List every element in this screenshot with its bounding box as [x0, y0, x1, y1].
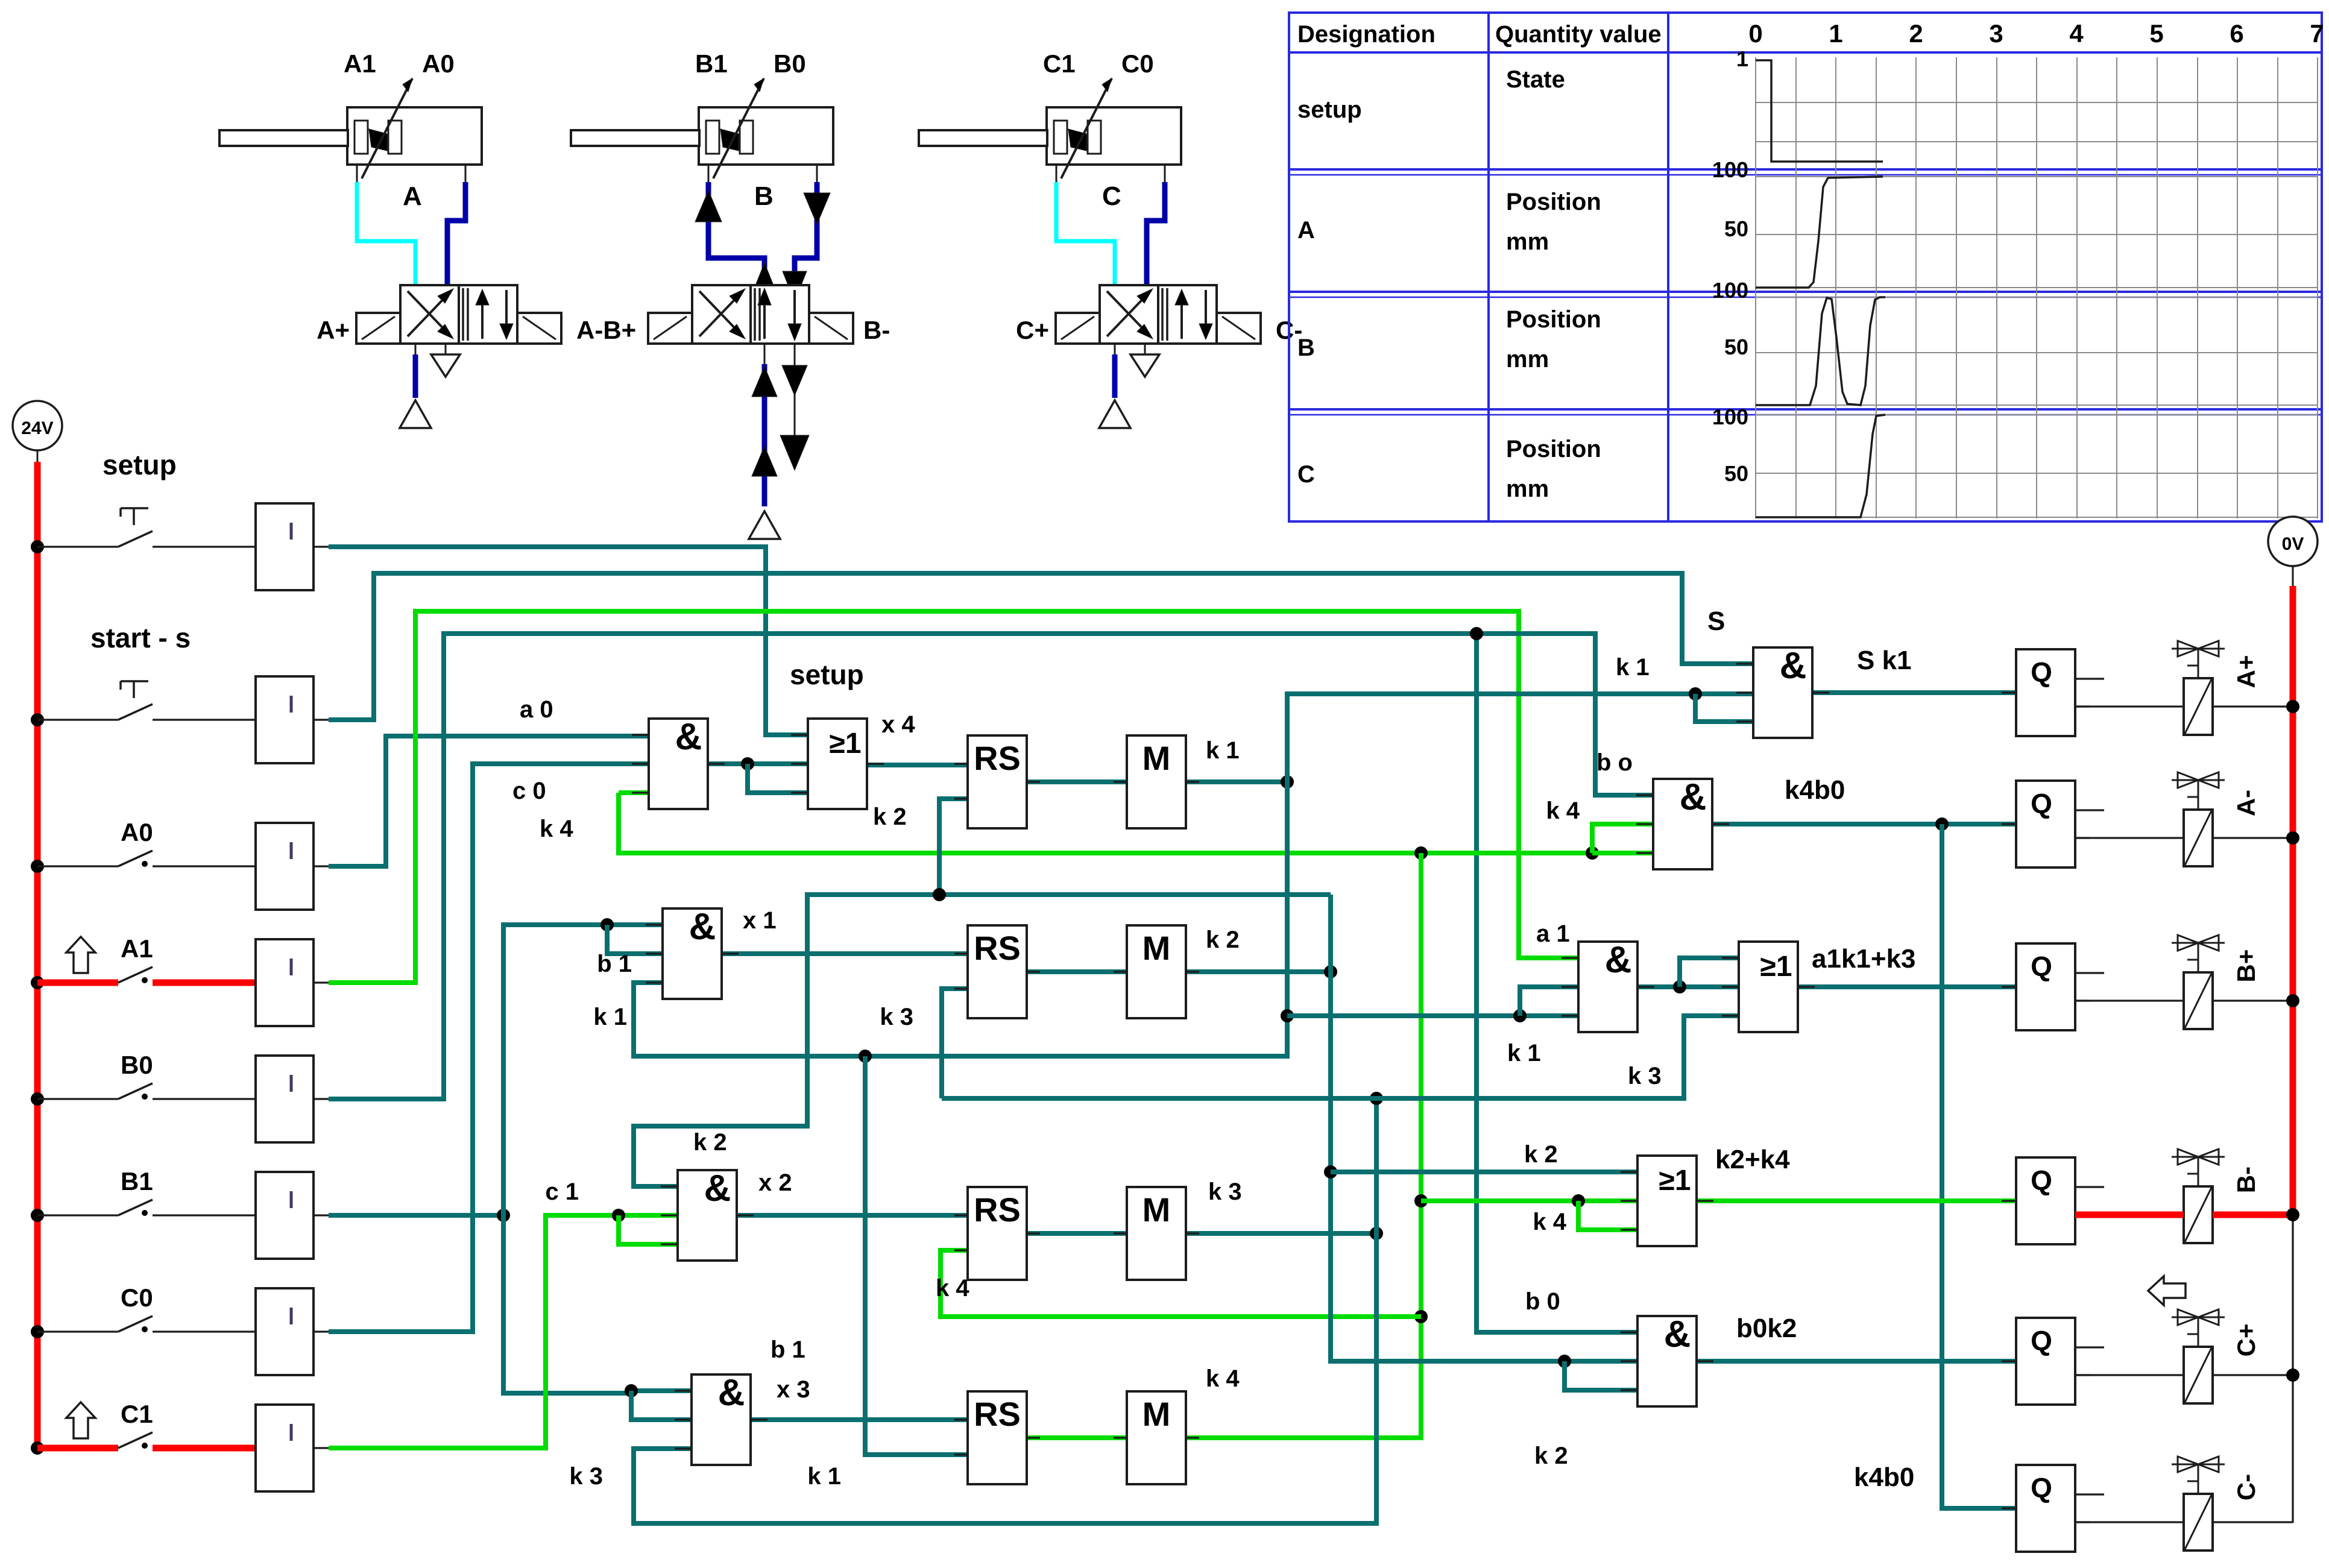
label A- rotated: [2232, 790, 2260, 816]
RS flip-flop RS4: [954, 1391, 1040, 1484]
svg-text:100: 100: [1712, 157, 1748, 182]
label C0: [121, 1283, 153, 1312]
net b1 to x1 and x3: [329, 918, 692, 1420]
chart axis value labels: [1712, 46, 1748, 486]
input block I C1: [256, 1405, 329, 1491]
net k4 vertical from M4: [1186, 853, 1428, 1438]
svg-text:Q: Q: [2031, 1325, 2052, 1356]
svg-text:6: 6: [2230, 19, 2243, 48]
svg-text:State: State: [1506, 66, 1565, 93]
output block Q B-: [2002, 1157, 2104, 1244]
label setup: [102, 449, 177, 480]
label a1k1+k3: [1812, 944, 1916, 974]
svg-text:k 4: k 4: [1206, 1365, 1240, 1392]
label c 1 at x2: [545, 1179, 579, 1205]
label k 4 at or gate: [1533, 1209, 1566, 1235]
net setup to OR gate: [329, 547, 808, 735]
svg-text:Q: Q: [2031, 1472, 2052, 1503]
svg-text:C1: C1: [1043, 49, 1076, 78]
label b o: [1596, 749, 1633, 776]
svg-text:A1: A1: [121, 934, 153, 963]
svg-text:0V: 0V: [2282, 534, 2304, 554]
actuation arrow at C+ valve: [2148, 1276, 2186, 1305]
svg-text:M: M: [1142, 739, 1171, 777]
svg-text:x 3: x 3: [777, 1376, 810, 1403]
AND gate x1: [646, 906, 739, 999]
svg-text:RS: RS: [974, 1191, 1021, 1229]
svg-text:k 4: k 4: [1546, 798, 1580, 824]
svg-text:k 1: k 1: [1507, 1040, 1541, 1066]
label x 3: [777, 1376, 810, 1403]
wire Q C- to solenoid: [2075, 1521, 2293, 1523]
label B1: [121, 1167, 153, 1195]
svg-text:50: 50: [1724, 335, 1748, 359]
svg-text:B0: B0: [774, 49, 806, 78]
trace setup state: [1756, 60, 1883, 162]
svg-text:b 1: b 1: [597, 951, 632, 977]
label k 2 at RS1 reset: [873, 804, 907, 830]
svg-text:B: B: [754, 181, 774, 211]
supply line and source valve B: [749, 344, 780, 539]
label S: [1707, 606, 1725, 636]
svg-text:24V: 24V: [21, 418, 53, 438]
label k 1 at RS4 reset: [807, 1463, 841, 1490]
label C1: [121, 1400, 153, 1428]
output block Q B+: [2002, 943, 2104, 1030]
svg-text:k2+k4: k2+k4: [1715, 1145, 1790, 1174]
svg-text:setup: setup: [102, 449, 177, 480]
label k 2 at or gate: [1524, 1141, 1558, 1168]
svg-text:C0: C0: [121, 1283, 153, 1312]
label k 4 green input: [540, 816, 573, 842]
svg-text:k 3: k 3: [1628, 1063, 1662, 1089]
svg-text:C+: C+: [2232, 1324, 2260, 1357]
svg-text:B-: B-: [863, 316, 890, 344]
supply line and source valve C: [1099, 344, 1130, 428]
label k 2 below b0k2 gate: [1534, 1443, 1568, 1469]
wire Q A- to solenoid: [2075, 837, 2293, 839]
input block I B1: [256, 1172, 329, 1259]
wire Q A+ to solenoid: [2075, 705, 2293, 707]
svg-text:mm: mm: [1506, 228, 1549, 255]
cylinder C with sensors C1 C0: [919, 49, 1181, 211]
label A0: [121, 818, 153, 846]
output block Q A-: [2002, 781, 2104, 867]
junction C0 on 24V rail: [31, 1325, 44, 1338]
net k4b0 output: [1712, 817, 2016, 1508]
net k2+k4 to Q B- (green): [1697, 1198, 2016, 1203]
solenoid A-: [2172, 772, 2225, 866]
valve A+/A- 5-2 way: [317, 285, 636, 344]
svg-text:50: 50: [1724, 216, 1748, 241]
AND gate a0*c0*k4: [632, 716, 725, 809]
net RS1 to M1: [1027, 779, 1127, 784]
svg-text:M: M: [1142, 1395, 1171, 1433]
tube C0 side (blue) cylinder C to valve C: [1147, 182, 1165, 285]
tube B1 side (blue) cylinder B to valve B: [708, 182, 764, 285]
label x 1: [743, 907, 777, 934]
trace B position: [1756, 297, 1885, 405]
svg-text:Designation: Designation: [1297, 21, 1436, 48]
svg-text:k 2: k 2: [1524, 1141, 1558, 1168]
switch A0: [37, 851, 256, 867]
svg-text:&: &: [1680, 776, 1707, 818]
svg-text:RS: RS: [974, 929, 1021, 967]
tube A0 side (blue) cylinder A to valve A: [447, 182, 465, 285]
svg-text:M: M: [1142, 929, 1171, 967]
label k 2 at x2: [693, 1129, 727, 1156]
label k 3 at RS2 reset: [880, 1004, 913, 1030]
net RS4 to M4 (green): [1027, 1435, 1127, 1440]
switch A1: [37, 967, 256, 983]
label x 2: [758, 1170, 792, 1196]
net S k1 gate output to Q A+: [1812, 690, 2016, 695]
svg-text:7: 7: [2310, 19, 2324, 48]
valve B 5-2 way (actuated, body shifted left): [648, 285, 890, 344]
svg-text:100: 100: [1712, 405, 1748, 429]
net a1 (green) to a1 gate: [329, 611, 1578, 983]
svg-text:C+: C+: [1016, 316, 1049, 344]
wire Q B- to solenoid (red): [2075, 1212, 2293, 1218]
svg-text:C1: C1: [121, 1400, 153, 1428]
svg-text:4: 4: [2069, 19, 2084, 48]
svg-text:x 1: x 1: [743, 907, 777, 934]
junction A0 on 24V rail: [31, 860, 44, 873]
svg-text:k4b0: k4b0: [1785, 775, 1845, 805]
svg-text:b 1: b 1: [771, 1337, 805, 1363]
solenoid C+: [2172, 1309, 2225, 1403]
switch B1: [37, 1200, 256, 1216]
AND gate x2: [661, 1168, 754, 1261]
net RS2 to M2: [1027, 969, 1127, 974]
net x3 to RS4: [751, 1417, 968, 1422]
svg-text:0: 0: [1748, 19, 1762, 48]
svg-text:C: C: [1297, 461, 1315, 488]
label k 2 at M2 output: [1206, 927, 1240, 953]
table quantity texts: [1506, 66, 1601, 502]
label k 3 at x3: [569, 1463, 603, 1490]
AND gate a1*k1: [1562, 939, 1654, 1032]
svg-text:B: B: [1297, 335, 1315, 361]
junction C1 on 24V rail: [31, 1441, 44, 1455]
solenoid B+: [2172, 935, 2225, 1029]
label setup at OR gate: [790, 659, 864, 690]
svg-text:A-: A-: [2232, 790, 2260, 816]
memory M2: [1114, 925, 1199, 1018]
svg-text:A: A: [1297, 217, 1315, 244]
net start-s to S gate: [329, 573, 1753, 720]
junction dots on 0V rail: [2286, 700, 2299, 1382]
label a 0: [520, 696, 553, 723]
output block Q A+: [2002, 649, 2104, 736]
net k4 to OR k2+k4: [1421, 1194, 1637, 1230]
net a1 AND to OR gate: [1637, 958, 1739, 993]
solenoid C-: [2172, 1456, 2225, 1551]
svg-text:mm: mm: [1506, 476, 1549, 502]
label k 3 at or gate: [1628, 1063, 1662, 1089]
memory M1: [1114, 735, 1199, 828]
label b0k2: [1736, 1314, 1797, 1343]
RS flip-flop RS3: [954, 1187, 1040, 1280]
label k2+k4: [1715, 1145, 1790, 1174]
svg-text:&: &: [1605, 939, 1632, 981]
24V red rail: [34, 462, 41, 1448]
svg-text:≥1: ≥1: [829, 728, 861, 760]
net k2 trunk: [634, 888, 1637, 1390]
svg-text:&: &: [704, 1168, 731, 1209]
exhaust valve A: [431, 344, 460, 377]
svg-text:x 2: x 2: [758, 1170, 792, 1196]
switch setup: [37, 508, 256, 547]
supply line and source valve A: [400, 344, 431, 428]
svg-text:B0: B0: [121, 1051, 153, 1079]
OR gate a1k1+k3: [1722, 942, 1815, 1032]
cylinder B with sensors B1 B0: [571, 49, 833, 211]
svg-text:c 0: c 0: [512, 778, 546, 804]
RS flip-flop RS2: [954, 925, 1040, 1018]
svg-text:100: 100: [1712, 278, 1748, 303]
AND gate S*k1: [1736, 645, 1829, 738]
net b0k2 to Q C+: [1697, 1359, 2016, 1364]
label k 1 at x1: [593, 1004, 627, 1030]
svg-text:A+: A+: [317, 316, 350, 344]
0V rail lower black: [2292, 1215, 2293, 1523]
svg-text:c 1: c 1: [545, 1179, 579, 1205]
svg-text:k 4: k 4: [1533, 1209, 1566, 1235]
net b0 branch to b0k2 gate: [1470, 627, 1637, 1332]
svg-text:&: &: [1780, 645, 1807, 687]
svg-text:S k1: S k1: [1857, 646, 1912, 675]
exhaust arrows valve B: [780, 344, 809, 470]
svg-text:k 1: k 1: [1616, 654, 1650, 681]
svg-text:Quantity value: Quantity value: [1495, 21, 1662, 48]
junction start - s on 24V rail: [31, 713, 44, 726]
label k 1 at M1 output: [1206, 737, 1240, 764]
svg-text:C: C: [1102, 181, 1121, 211]
label b 1 at x3: [771, 1337, 805, 1363]
svg-text:k 4: k 4: [540, 816, 573, 842]
label C+ rotated: [2232, 1324, 2260, 1357]
tube C1 side (cyan) cylinder C to valve C: [1056, 182, 1115, 285]
svg-text:b0k2: b0k2: [1736, 1314, 1797, 1343]
label x 4: [881, 711, 915, 738]
label k 4 at k4b0 gate: [1546, 798, 1580, 824]
net c1 (green) to x2: [329, 1209, 678, 1448]
junction B1 on 24V rail: [31, 1209, 44, 1222]
label S k1: [1857, 646, 1912, 675]
net a0 to AND gate: [329, 736, 649, 866]
net k2 to RS1 reset: [939, 799, 968, 895]
svg-text:3: 3: [1989, 19, 2003, 48]
svg-text:k 2: k 2: [693, 1129, 727, 1156]
svg-text:Position: Position: [1506, 436, 1601, 462]
net k4 green trunk: [619, 793, 1653, 860]
svg-text:RS: RS: [974, 739, 1021, 777]
memory M4: [1114, 1391, 1199, 1484]
0V red rail upper: [2290, 586, 2296, 1215]
svg-text:setup: setup: [1297, 96, 1362, 123]
svg-text:B-: B-: [2232, 1167, 2260, 1193]
svg-text:B1: B1: [121, 1167, 153, 1195]
svg-text:≥1: ≥1: [1760, 951, 1792, 983]
label A+ rotated: [2232, 655, 2260, 688]
RS flip-flop RS1: [954, 735, 1040, 828]
svg-text:A0: A0: [422, 49, 455, 78]
svg-text:A: A: [403, 181, 422, 211]
svg-text:&: &: [675, 716, 702, 758]
svg-text:k 2: k 2: [1206, 927, 1240, 953]
net k3 from M3: [634, 1016, 1739, 1523]
svg-text:1: 1: [1829, 19, 1842, 48]
actuation arrow at C1: [66, 1402, 95, 1438]
svg-text:setup: setup: [790, 659, 864, 690]
svg-text:x 4: x 4: [881, 711, 915, 738]
wire Q B+ to solenoid: [2075, 1000, 2293, 1001]
svg-text:Q: Q: [2031, 1165, 2052, 1196]
junction A1 on 24V rail: [31, 976, 44, 989]
label start - s: [90, 622, 191, 653]
valve C 5-2 way: [1016, 285, 1302, 344]
label k 1 at S gate: [1616, 654, 1650, 681]
memory M3: [1114, 1187, 1199, 1280]
net AND1 out to OR x4: [708, 757, 808, 793]
label b 0: [1525, 1288, 1560, 1315]
flow arrow down on tube B0: [783, 193, 830, 301]
svg-text:A+: A+: [2232, 655, 2260, 688]
label b 1 at x1: [597, 951, 632, 977]
flow arrow up on tube B1: [695, 190, 777, 293]
tube B0 side (blue) cylinder B to valve B: [795, 182, 817, 285]
net k3 to RS2 reset: [942, 989, 968, 1098]
svg-text:Q: Q: [2031, 788, 2052, 819]
svg-text:k 1: k 1: [1206, 737, 1240, 764]
svg-text:a 0: a 0: [520, 696, 553, 723]
svg-text:b 0: b 0: [1525, 1288, 1560, 1315]
svg-text:S: S: [1707, 606, 1725, 636]
net x2 to RS3: [737, 1213, 968, 1218]
output block Q C+: [2002, 1318, 2104, 1405]
net a1k1+k3 to Q B+: [1798, 984, 2016, 989]
switch C0: [37, 1316, 256, 1332]
label k 1 below a1 gate: [1507, 1040, 1541, 1066]
solenoid A+: [2172, 641, 2225, 735]
label B- rotated: [2232, 1167, 2260, 1193]
cylinder A with sensors A1 A0: [219, 49, 482, 211]
svg-text:k 3: k 3: [569, 1463, 603, 1490]
label B0: [121, 1051, 153, 1079]
svg-text:k 1: k 1: [807, 1463, 841, 1490]
net c0 to AND gate: [329, 764, 649, 1332]
svg-text:M: M: [1142, 1191, 1171, 1229]
svg-text:k 3: k 3: [1208, 1179, 1242, 1205]
svg-text:A1: A1: [344, 49, 376, 78]
net b0 to k4b0 gate: [329, 634, 1653, 1099]
switch start - s: [37, 681, 256, 720]
svg-text:A-B+: A-B+: [576, 316, 636, 344]
svg-text:C0: C0: [1121, 49, 1154, 78]
trace A position: [1756, 177, 1883, 288]
svg-text:B+: B+: [2232, 949, 2260, 983]
net RS3 to M3: [1027, 1231, 1127, 1236]
label a 1: [1536, 921, 1570, 947]
junction B0 on 24V rail: [31, 1092, 44, 1106]
svg-text:Position: Position: [1506, 306, 1601, 333]
svg-text:start - s: start - s: [90, 622, 191, 653]
svg-text:mm: mm: [1506, 346, 1549, 373]
OR gate x4: [791, 719, 884, 809]
actuation arrow at A1: [66, 937, 95, 973]
net x1 to RS2: [722, 951, 968, 956]
input block I A1: [256, 939, 329, 1026]
junction setup on 24V rail: [31, 540, 44, 553]
svg-text:k4b0: k4b0: [1854, 1463, 1914, 1492]
svg-text:k 2: k 2: [1534, 1443, 1568, 1469]
trace C position: [1756, 415, 1885, 517]
svg-text:RS: RS: [974, 1395, 1021, 1433]
table header texts: [1297, 19, 2324, 48]
svg-text:B1: B1: [695, 49, 728, 78]
input block I C0: [256, 1288, 329, 1375]
label k4b0 at C- branch: [1854, 1463, 1914, 1492]
input block I setup: [256, 503, 329, 590]
svg-text:&: &: [689, 906, 716, 948]
switch C1: [37, 1432, 256, 1449]
label k 4 at M4 output: [1206, 1365, 1240, 1392]
AND gate k4*b0: [1636, 776, 1729, 869]
svg-text:k 2: k 2: [873, 804, 907, 830]
net k1 from M1: [634, 687, 1753, 1455]
svg-text:5: 5: [2149, 19, 2163, 48]
tube A1 side (cyan) cylinder A to valve A: [357, 182, 415, 285]
svg-text:b o: b o: [1596, 749, 1633, 776]
label C- rotated: [2232, 1474, 2260, 1500]
net k4 to RS3 reset: [941, 1250, 1421, 1317]
svg-text:&: &: [718, 1372, 745, 1414]
label k 4 at RS3 reset: [936, 1275, 969, 1302]
label c 0: [512, 778, 546, 804]
svg-text:a1k1+k3: a1k1+k3: [1812, 944, 1916, 974]
input block I start - s: [256, 676, 329, 763]
svg-text:≥1: ≥1: [1659, 1165, 1691, 1197]
input block I B0: [256, 1056, 329, 1142]
svg-text:2: 2: [1909, 19, 1923, 48]
label k4b0 output: [1785, 775, 1845, 805]
svg-text:k 1: k 1: [593, 1004, 627, 1030]
0V supply: [2268, 517, 2318, 586]
switch B0: [37, 1083, 256, 1100]
svg-text:Position: Position: [1506, 189, 1601, 215]
svg-text:k 3: k 3: [880, 1004, 913, 1030]
svg-text:50: 50: [1724, 461, 1748, 486]
exhaust valve C: [1130, 344, 1159, 377]
wire Q C+ to solenoid: [2075, 1374, 2293, 1376]
label k 3 at M3 output: [1208, 1179, 1242, 1205]
svg-text:A0: A0: [121, 818, 153, 846]
OR gate k2+k4: [1621, 1156, 1713, 1246]
svg-text:&: &: [1664, 1314, 1691, 1355]
input block I A0: [256, 823, 329, 910]
chart grid: [1756, 57, 2318, 518]
output block Q C-: [2002, 1465, 2104, 1552]
AND gate b0*k2: [1621, 1314, 1713, 1406]
24V supply: [13, 401, 62, 462]
AND gate x3: [675, 1372, 767, 1465]
state diagram table frame: [1289, 13, 2322, 521]
svg-text:Q: Q: [2031, 656, 2052, 688]
table row labels: [1297, 96, 1362, 488]
net x4 to RS1: [867, 763, 968, 767]
svg-text:a 1: a 1: [1536, 921, 1570, 947]
